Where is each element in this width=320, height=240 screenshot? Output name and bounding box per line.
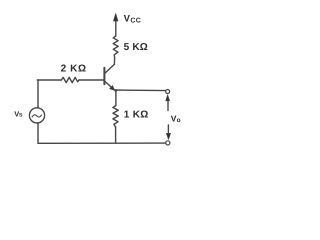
terminal: output top (open circle)	[166, 90, 170, 94]
terminal: output bottom (open circle)	[166, 141, 170, 145]
svg-text:2 KΩ: 2 KΩ	[61, 63, 87, 74]
svg-text:1 KΩ: 1 KΩ	[124, 110, 149, 121]
wire: source bottom to ground rail	[37, 123, 39, 143]
wire: bottom rail	[38, 142, 166, 144]
svg-text:5 KΩ: 5 KΩ	[124, 42, 148, 53]
resistor 2KΩ (zigzag)	[61, 77, 79, 82]
wire: junction down to 1K resistor	[115, 91, 117, 106]
wire: 1K resistor to bottom rail	[115, 127, 117, 143]
transistor Q1 (NPN)	[104, 64, 114, 90]
node: emitter/output junction	[115, 89, 118, 92]
wire: emitter node to output terminal (top)	[114, 89, 165, 92]
resistor 1KΩ (zigzag)	[113, 106, 118, 128]
wire: VCC stem down to 5K	[115, 21, 117, 36]
wire: resistor to transistor base	[79, 79, 104, 81]
VCC supply arrow	[114, 14, 118, 21]
source VS (AC source circle with sine)	[29, 108, 44, 123]
resistor 5KΩ (zigzag)	[113, 36, 118, 58]
wire: collector up to 5K resistor	[113, 58, 115, 65]
Vo measurement arrow (down)	[166, 125, 170, 139]
wire: base line left segment	[37, 79, 61, 81]
wire: source top to base line corner	[37, 80, 39, 108]
Vo measurement arrow (up)	[166, 95, 170, 111]
